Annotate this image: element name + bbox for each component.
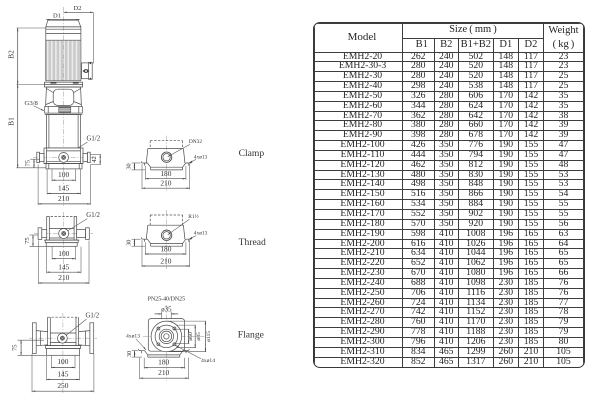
svg-text:180: 180 <box>160 245 171 254</box>
svg-text:100: 100 <box>57 357 68 366</box>
label 4x014 (flange) <box>175 345 215 364</box>
svg-text:210: 210 <box>58 194 69 203</box>
svg-text:G1/2: G1/2 <box>87 136 101 143</box>
bottom plate (main) <box>44 164 83 169</box>
svg-text:210: 210 <box>160 179 171 188</box>
right pipe flange <box>79 323 94 354</box>
flange bolt holes <box>157 327 176 346</box>
svg-text:D1: D1 <box>53 12 61 19</box>
svg-text:250: 250 <box>57 381 68 390</box>
base wings (clamp) <box>141 161 192 170</box>
dimension D2 <box>64 5 94 63</box>
dimension 42 <box>91 155 101 165</box>
dashed envelope (thread) <box>150 215 182 225</box>
dimension 250 (flange view) <box>32 354 94 392</box>
svg-text:ø115: ø115 <box>206 331 212 342</box>
svg-text:210: 210 <box>58 273 69 282</box>
centerline (mid view) <box>63 212 65 282</box>
motor flange <box>44 82 82 87</box>
svg-text:G3/8: G3/8 <box>25 100 39 107</box>
flange body plate <box>148 319 184 352</box>
base wings (thread) <box>141 237 192 246</box>
base wings (flange section) <box>138 349 189 357</box>
label 4x013 (clamp) <box>189 154 207 163</box>
svg-text:145: 145 <box>58 262 69 271</box>
dimension 100 (mid) <box>52 247 75 260</box>
svg-text:75: 75 <box>24 237 31 244</box>
svg-text:ø60: ø60 <box>188 332 194 341</box>
pump head band <box>45 107 83 115</box>
svg-text:145: 145 <box>58 183 69 192</box>
label G3/8 <box>25 100 45 111</box>
svg-text:B2: B2 <box>7 50 16 59</box>
centerline (flange front view) <box>62 313 64 393</box>
dimension 30 (flange section) <box>126 351 142 357</box>
svg-text:75: 75 <box>24 159 31 166</box>
svg-text:30: 30 <box>126 240 133 246</box>
label 4x013 (flange) <box>126 334 146 350</box>
dimension 210 (thread) <box>142 240 190 267</box>
svg-text:100: 100 <box>58 249 69 258</box>
dimension 210 (main) <box>38 165 90 206</box>
port (mid) <box>59 229 69 239</box>
svg-text:145: 145 <box>57 369 68 378</box>
body (flange front view) <box>48 317 79 345</box>
svg-text:DN32: DN32 <box>189 139 202 145</box>
dimension 145 (mid) <box>47 247 81 274</box>
pump sleeve <box>47 115 81 148</box>
dimension 30 (thread) <box>126 239 145 246</box>
label 4x013 (thread) <box>189 231 207 240</box>
svg-text:Clamp: Clamp <box>239 148 265 159</box>
svg-text:G1/2: G1/2 <box>86 313 100 320</box>
svg-text:PN25-40/DN25: PN25-40/DN25 <box>148 296 185 302</box>
dimension 100 (flange view) <box>51 356 75 369</box>
dimension 75 (main) <box>24 159 40 168</box>
svg-text:4xø14: 4xø14 <box>201 358 215 364</box>
dimension 100 (main) <box>52 169 76 181</box>
dimension 145 (main) <box>47 169 81 194</box>
dimension 060 <box>174 329 194 343</box>
svg-text:210: 210 <box>160 257 171 266</box>
dimension 210 (flange section) <box>140 358 189 379</box>
svg-text:G1/2: G1/2 <box>86 212 100 219</box>
terminal box <box>82 62 93 79</box>
label DN32 <box>168 139 203 157</box>
svg-text:180: 180 <box>158 358 169 367</box>
dimension 30 (clamp) <box>126 163 145 170</box>
dimension 035 <box>155 306 179 318</box>
svg-text:ø35: ø35 <box>161 306 172 313</box>
svg-text:180: 180 <box>160 169 171 178</box>
flange circles <box>151 321 182 352</box>
svg-text:100: 100 <box>58 170 69 179</box>
base (flange view) <box>45 346 82 356</box>
dimension B2 <box>7 28 46 84</box>
dimension 180 (clamp) <box>145 166 186 180</box>
lantern support <box>46 87 82 107</box>
svg-text:4xø13: 4xø13 <box>126 334 140 340</box>
label G1/2 (main) <box>65 136 100 156</box>
dimension B1 <box>7 84 46 167</box>
dimension 0115 <box>167 321 212 352</box>
dimension 180 (flange section) <box>144 358 185 369</box>
svg-text:ø85: ø85 <box>196 332 202 341</box>
dimension 210 (clamp) <box>142 164 190 189</box>
label G1/2 (mid) <box>66 212 101 232</box>
body (thread section) <box>146 225 185 239</box>
pump base (main) <box>33 148 95 164</box>
body (clamp section) <box>146 149 185 163</box>
svg-text:R1½: R1½ <box>188 213 198 220</box>
base (mid) <box>44 240 79 246</box>
dimension 210 (mid) <box>39 241 90 285</box>
label G1/2 (flange view) <box>64 313 99 337</box>
centerline (main pump) <box>63 7 65 206</box>
centerline (thread section) <box>166 210 168 269</box>
dashed envelope (clamp) <box>150 141 182 149</box>
svg-text:Thread: Thread <box>239 237 266 248</box>
port circle (clamp section) <box>161 152 171 162</box>
svg-text:42: 42 <box>91 156 98 163</box>
body (mid view) <box>47 216 77 240</box>
centerline (clamp section) <box>166 136 168 192</box>
svg-text:30: 30 <box>126 351 133 357</box>
svg-text:210: 210 <box>158 368 169 377</box>
port circle (thread section) <box>161 230 171 240</box>
svg-text:D2: D2 <box>74 5 82 12</box>
centerline (flange section) <box>165 305 167 381</box>
svg-text:75: 75 <box>11 344 18 351</box>
left pipe flange <box>32 323 47 354</box>
motor fan cover <box>46 20 81 33</box>
dimension 75 (mid) <box>24 235 46 246</box>
label R1½ <box>168 213 199 235</box>
motor body with cooling fins <box>46 27 81 81</box>
dimension 085 <box>176 325 202 348</box>
svg-text:Flange: Flange <box>238 330 264 341</box>
dimension 75 (flange view) <box>11 340 46 355</box>
svg-text:30: 30 <box>126 163 133 169</box>
svg-text:B1: B1 <box>7 117 16 126</box>
dimension 145 (flange view) <box>47 356 80 381</box>
dimension 180 (thread) <box>145 242 186 255</box>
port (flange view) <box>58 333 68 343</box>
dimension D1 <box>46 12 79 19</box>
side bosses (mid) <box>38 228 89 240</box>
